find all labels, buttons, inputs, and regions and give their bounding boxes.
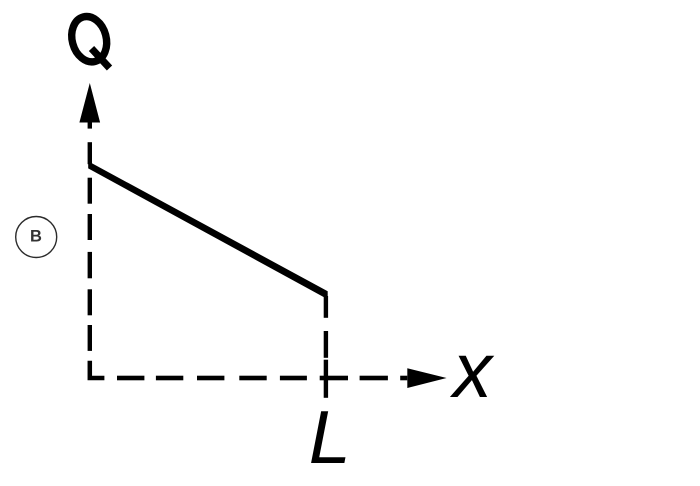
wire: x-axis dashed segment 4 bbox=[239, 376, 266, 381]
wire: Q-axis arrow tail stub bbox=[88, 121, 92, 129]
svg-text:L: L bbox=[309, 395, 351, 479]
axis label Q (tail bar) bbox=[92, 49, 110, 69]
wire: Q-axis dashed segment 6 bbox=[88, 325, 92, 351]
wire: drop line dashed segment 1 bbox=[324, 296, 328, 318]
tick mark at L bbox=[324, 360, 328, 398]
wire: x-axis dashed segment 3 bbox=[197, 376, 224, 381]
marker circle B bbox=[16, 217, 57, 258]
wire: drop line dashed segment 2 bbox=[324, 331, 328, 358]
wire: Q-axis dashed segment 4 bbox=[88, 252, 92, 278]
wire: x-axis dashed segment 7 bbox=[360, 376, 388, 381]
wire: x-axis arrow tail stub bbox=[400, 376, 407, 381]
wire: Q-axis dashed segment 1 bbox=[88, 142, 92, 164]
wire: axis origin corner dash bbox=[90, 361, 105, 378]
svg-text:x: x bbox=[449, 326, 495, 414]
load line (thick sloped line) bbox=[88, 161, 328, 299]
axis label Q (ring) bbox=[67, 13, 112, 66]
wire: x-axis dashed segment 1 bbox=[117, 376, 144, 381]
arrowhead x-axis bbox=[407, 368, 446, 388]
svg-text:B: B bbox=[30, 228, 42, 246]
wire: Q-axis dashed segment 2 bbox=[88, 178, 92, 204]
wire: x-axis dashed segment 2 bbox=[156, 376, 183, 381]
wire: x-axis dashed segment 6 bbox=[320, 376, 348, 381]
wire: Q-axis dashed segment 5 bbox=[88, 289, 92, 315]
wire: Q-axis dashed segment 3 bbox=[88, 214, 92, 240]
wire: x-axis dashed segment 5 bbox=[280, 376, 307, 381]
arrowhead Q-axis bbox=[79, 83, 100, 123]
